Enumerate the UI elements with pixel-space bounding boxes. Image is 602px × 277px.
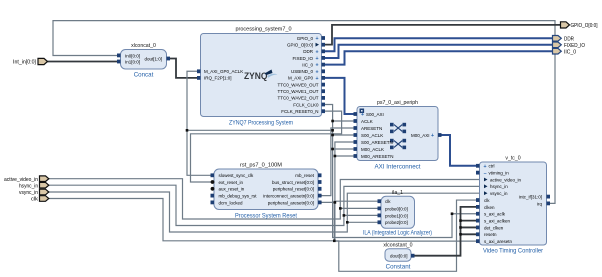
svg-text:+: + bbox=[315, 49, 318, 55]
wire FCLK_CLK0 branch slowest_sync_clk bbox=[187, 130, 214, 175]
svg-text:ZYNQ: ZYNQ bbox=[244, 71, 268, 82]
left pin S00_ARESETN bbox=[354, 140, 358, 144]
left pin S00_ACLK bbox=[354, 133, 358, 137]
left pin det_clken bbox=[476, 226, 480, 230]
svg-text:M00_ACLK: M00_ACLK bbox=[361, 147, 384, 152]
wire net IIC_0 bbox=[324, 51, 553, 64]
svg-text:FCLK_RESET0_N: FCLK_RESET0_N bbox=[281, 109, 318, 114]
left pin vsync_in bbox=[484, 191, 488, 195]
svg-text:+: + bbox=[315, 69, 318, 75]
svg-text:IIC_0: IIC_0 bbox=[302, 62, 313, 67]
svg-text:bus_struct_reset[0:0]: bus_struct_reset[0:0] bbox=[272, 180, 314, 185]
wire net M00_AXI -> v_tc ctrl bbox=[438, 135, 480, 166]
block processing_system7_0 ZYNQ bbox=[197, 27, 325, 127]
svg-text:+: + bbox=[315, 63, 318, 69]
left pin s_axi_aresetn bbox=[476, 239, 480, 243]
wire active_video branch probe0 bbox=[340, 207, 381, 209]
svg-text:dcm_locked: dcm_locked bbox=[219, 200, 244, 205]
svg-text:det_clken: det_clken bbox=[484, 225, 504, 230]
right pin mb_reset bbox=[318, 173, 322, 177]
svg-text:DDR: DDR bbox=[303, 49, 313, 54]
wire FCLK_CLK0 branch S00_ACLK bbox=[333, 134, 357, 136]
svg-text:In0[0:0]: In0[0:0] bbox=[125, 53, 140, 58]
wire peripheral_aresetn branch M00_ARESETN bbox=[335, 155, 357, 157]
svg-text:M00_AXI: M00_AXI bbox=[411, 133, 430, 138]
svg-text:TTC0_WAVE0_OUT: TTC0_WAVE0_OUT bbox=[277, 82, 318, 87]
svg-text:probe2[0:0]: probe2[0:0] bbox=[385, 220, 408, 225]
svg-text:processing_system7_0: processing_system7_0 bbox=[236, 27, 292, 33]
right pin bus_struct_reset bbox=[318, 180, 322, 184]
wire net irq -> concat In0 bbox=[53, 21, 555, 204]
svg-text:Constant: Constant bbox=[386, 264, 411, 271]
block v_tc_0 Video Timing Controller bbox=[476, 156, 550, 255]
svg-text:S00_ACLK: S00_ACLK bbox=[361, 133, 383, 138]
svg-text:dout[1:0]: dout[1:0] bbox=[144, 56, 162, 61]
left pin aux_reset_in bbox=[211, 187, 215, 191]
svg-text:vtiming_in: vtiming_in bbox=[489, 171, 510, 176]
svg-text:clken: clken bbox=[484, 205, 495, 210]
svg-text:active_video_in: active_video_in bbox=[4, 177, 38, 183]
left pin resetn bbox=[476, 232, 480, 236]
svg-text:rst_ps7_0_100M: rst_ps7_0_100M bbox=[240, 163, 282, 169]
svg-text:DDR: DDR bbox=[564, 37, 574, 43]
svg-text:Video Timing Controller: Video Timing Controller bbox=[483, 248, 543, 255]
junction dots bbox=[186, 120, 462, 242]
svg-text:clk: clk bbox=[484, 198, 490, 203]
output port GPIO_O bbox=[561, 22, 598, 29]
svg-text:s_axi_aclk: s_axi_aclk bbox=[484, 212, 506, 217]
left pin clk bbox=[476, 198, 480, 202]
svg-text:ACLK: ACLK bbox=[361, 119, 373, 124]
input port vsync_in bbox=[19, 189, 49, 196]
svg-text:interconnect_aresetn[0:0]: interconnect_aresetn[0:0] bbox=[263, 194, 314, 199]
svg-text:IRQ_F2P[1:0]: IRQ_F2P[1:0] bbox=[204, 76, 232, 81]
svg-text:M_AXI_GP0: M_AXI_GP0 bbox=[288, 76, 314, 81]
svg-text:ARESETN: ARESETN bbox=[361, 126, 382, 131]
right pin irq bbox=[547, 202, 551, 206]
svg-text:TTC0_WAVE2_OUT: TTC0_WAVE2_OUT bbox=[277, 96, 318, 101]
svg-text:clk: clk bbox=[385, 199, 391, 204]
svg-text:−: − bbox=[483, 171, 486, 177]
wire net peripheral_aresetn trunk bbox=[318, 142, 357, 202]
svg-text:+: + bbox=[431, 133, 434, 139]
left pin hsync_in bbox=[484, 184, 488, 188]
svg-text:mb_reset: mb_reset bbox=[295, 173, 315, 178]
block xlconstant_0 Constant bbox=[383, 243, 414, 271]
svg-text:irq: irq bbox=[537, 201, 542, 206]
svg-text:+: + bbox=[361, 112, 364, 118]
right pin interconnect_aresetn bbox=[318, 194, 322, 198]
svg-text:ext_reset_in: ext_reset_in bbox=[219, 180, 244, 185]
svg-text:probe0[0:0]: probe0[0:0] bbox=[385, 206, 408, 211]
wire FCLK_CLK0 cross link bbox=[187, 129, 333, 131]
block rst_ps7_0_100M Processor System Reset bbox=[211, 163, 322, 220]
left pin probe0 bbox=[378, 207, 382, 211]
wire net FIXED_IO bbox=[324, 45, 553, 58]
wire net concat dout -> IRQ_F2P bbox=[167, 59, 201, 78]
input port clk bbox=[31, 196, 49, 203]
svg-text:AXI Interconnect: AXI Interconnect bbox=[375, 164, 421, 171]
svg-text:IIC_0: IIC_0 bbox=[564, 49, 576, 55]
svg-text:+: + bbox=[315, 56, 318, 62]
input port active_video_in bbox=[4, 176, 49, 183]
svg-text:v_tc_0: v_tc_0 bbox=[505, 156, 520, 162]
left pin mb_debug_sys_rst bbox=[211, 194, 215, 198]
left pin s_axi_aclk bbox=[476, 212, 480, 216]
wire net hsync_in bbox=[47, 185, 480, 225]
svg-text:+: + bbox=[483, 164, 486, 170]
left pin S00_AXI bbox=[354, 112, 358, 116]
left pin probe1 bbox=[378, 214, 382, 218]
wire constant branch det_clken bbox=[461, 226, 480, 228]
svg-text:ZYNQ7 Processing System: ZYNQ7 Processing System bbox=[229, 120, 293, 127]
wire net FCLK_CLK0 trunk right bbox=[324, 105, 480, 238]
right pins bbox=[322, 36, 326, 40]
input port Int_in bbox=[13, 58, 48, 65]
left pin IRQ_F2P bbox=[197, 76, 201, 80]
svg-text:FIXED_IO: FIXED_IO bbox=[564, 43, 585, 49]
block xlconcat_0 Concat bbox=[117, 43, 170, 79]
expand icon bbox=[360, 109, 365, 114]
wire net vsync_in bbox=[47, 192, 480, 232]
right pin intc_if bbox=[547, 195, 551, 199]
svg-text:s_axi_aclken: s_axi_aclken bbox=[484, 219, 511, 224]
svg-text:xlconcat_0: xlconcat_0 bbox=[131, 43, 156, 49]
wire net xlconstant dout trunk bbox=[411, 207, 480, 256]
wire vsync branch probe2 bbox=[347, 221, 381, 223]
svg-text:probe1[0:0]: probe1[0:0] bbox=[385, 213, 408, 218]
block ila_1 ILA bbox=[363, 190, 432, 237]
svg-text:s_axi_aresetn: s_axi_aresetn bbox=[484, 239, 513, 244]
left pin clken bbox=[476, 205, 480, 209]
left pin dcm_locked bbox=[211, 201, 215, 205]
svg-text:FCLK_CLK0: FCLK_CLK0 bbox=[293, 102, 319, 107]
svg-text:xlconstant_0: xlconstant_0 bbox=[383, 243, 412, 249]
wire FCLK_CLK0 branch ACLK bbox=[333, 120, 357, 122]
wire net Int_in -> concat In1 bbox=[47, 61, 121, 63]
left pin ACLK bbox=[354, 119, 358, 123]
svg-text:dout[0:0]: dout[0:0] bbox=[390, 254, 408, 259]
svg-text:Int_in[0:0]: Int_in[0:0] bbox=[13, 60, 37, 66]
svg-text:M00_ARESETN: M00_ARESETN bbox=[361, 154, 394, 159]
output port DDR bbox=[553, 36, 575, 43]
left pin vtiming_in bbox=[476, 171, 480, 175]
svg-text:FIXED_IO: FIXED_IO bbox=[292, 56, 313, 61]
left pin slowest_sync_clk bbox=[211, 173, 215, 177]
wire clk branch ila clk bbox=[334, 201, 381, 241]
left pin ARESETN bbox=[354, 126, 358, 130]
svg-text:clk: clk bbox=[31, 197, 38, 203]
wire peripheral_aresetn branch s_axi_aresetn bbox=[335, 202, 480, 241]
svg-text:aux_reset_in: aux_reset_in bbox=[219, 187, 245, 192]
right pin peripheral_aresetn bbox=[318, 201, 322, 205]
svg-text:+: + bbox=[315, 36, 318, 42]
svg-text:hsync_in: hsync_in bbox=[19, 183, 38, 189]
svg-text:GPIO_O[0:0]: GPIO_O[0:0] bbox=[287, 43, 313, 48]
wire net GPIO_O bbox=[324, 25, 561, 45]
wire net M_AXI_GP0 -> S00_AXI bbox=[324, 78, 357, 114]
right pin M00_AXI bbox=[438, 133, 442, 137]
svg-text:Processor System Reset: Processor System Reset bbox=[235, 213, 297, 220]
svg-text:GPIO_0: GPIO_0 bbox=[297, 36, 314, 41]
svg-text:resetn: resetn bbox=[484, 232, 497, 237]
svg-text:M_AXI_GP0_ACLK: M_AXI_GP0_ACLK bbox=[204, 69, 243, 74]
left pin ext_reset_in bbox=[211, 180, 215, 184]
svg-text:S00_AXI: S00_AXI bbox=[366, 112, 384, 117]
svg-text:USBIND_0: USBIND_0 bbox=[291, 69, 314, 74]
right pin peripheral_reset bbox=[318, 187, 322, 191]
left pin active_video_in bbox=[484, 178, 488, 182]
svg-text:ila_1: ila_1 bbox=[392, 190, 403, 196]
svg-text:S00_ARESETN: S00_ARESETN bbox=[361, 140, 393, 145]
wire net active_video_in bbox=[47, 179, 480, 219]
input port hsync_in bbox=[19, 182, 49, 189]
svg-text:peripheral_aresetn[0:0]: peripheral_aresetn[0:0] bbox=[268, 200, 314, 205]
svg-text:GPIO_O[0:0]: GPIO_O[0:0] bbox=[571, 23, 598, 29]
wire hsync branch probe1 bbox=[344, 214, 381, 216]
left pin ctrl bbox=[476, 164, 480, 168]
wire net interconnect_aresetn -> ARESETN bbox=[318, 128, 357, 196]
left pin clk bbox=[378, 199, 382, 203]
svg-text:TTC0_WAVE1_OUT: TTC0_WAVE1_OUT bbox=[277, 89, 318, 94]
svg-text:ILA (Integrated Logic Analyzer: ILA (Integrated Logic Analyzer) bbox=[363, 230, 432, 237]
svg-text:vsync_in: vsync_in bbox=[490, 191, 508, 196]
svg-text:Concat: Concat bbox=[134, 72, 154, 79]
wire constant branch s_axi_aclken bbox=[461, 220, 480, 222]
svg-text:ctrl: ctrl bbox=[489, 164, 495, 169]
svg-text:vsync_in: vsync_in bbox=[19, 190, 38, 196]
svg-text:hsync_in: hsync_in bbox=[490, 184, 508, 189]
svg-text:intc_if[31:0]: intc_if[31:0] bbox=[519, 195, 542, 200]
block ps7_0_axi_periph AXI Interconnect bbox=[354, 100, 442, 171]
svg-text:In1[0:0]: In1[0:0] bbox=[125, 59, 140, 64]
wire FCLK_CLK0 branch M_AXI_GP0_ACLK bbox=[187, 71, 201, 130]
svg-text:ps7_0_axi_periph: ps7_0_axi_periph bbox=[377, 100, 418, 106]
output port IIC_0 bbox=[553, 48, 577, 55]
svg-text:mb_debug_sys_rst: mb_debug_sys_rst bbox=[219, 194, 258, 199]
left pin M00_ACLK bbox=[354, 147, 358, 151]
left pin M00_ARESETN bbox=[354, 154, 358, 158]
left pin probe2 bbox=[378, 220, 382, 224]
wire FCLK_CLK0 branch M00_ACLK bbox=[333, 148, 357, 150]
left pin M_AXI_GP0_ACLK bbox=[197, 69, 201, 73]
svg-text:active_video_in: active_video_in bbox=[490, 177, 522, 182]
wire constant branch resetn bbox=[461, 233, 480, 235]
left pin s_axi_aclken bbox=[476, 219, 480, 223]
svg-text:slowest_sync_clk: slowest_sync_clk bbox=[219, 173, 255, 178]
wire net DDR bbox=[324, 38, 553, 51]
wire net clk trunk bbox=[47, 199, 480, 272]
crossbar icon bbox=[390, 123, 406, 149]
wire net FCLK_RESET0_N -> ext_reset_in bbox=[191, 111, 342, 182]
svg-text:peripheral_reset[0:0]: peripheral_reset[0:0] bbox=[273, 187, 314, 192]
output port FIXED_IO bbox=[553, 42, 586, 49]
svg-text:+: + bbox=[315, 76, 318, 82]
